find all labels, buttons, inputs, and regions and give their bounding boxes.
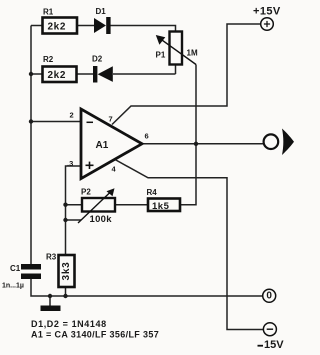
- svg-text:R4: R4: [147, 188, 158, 197]
- svg-text:D1: D1: [96, 7, 107, 16]
- resistor R1: [43, 8, 78, 34]
- svg-text:1M: 1M: [187, 48, 198, 57]
- svg-text:.3: .3: [67, 159, 73, 168]
- terminal +15V: [253, 5, 281, 30]
- node R3 ground: [63, 294, 67, 298]
- wire pin 2: [31, 121, 81, 123]
- wire pin 7 to +15V: [112, 24, 261, 125]
- terminal -15V: [258, 323, 285, 351]
- terminal 0: [263, 289, 276, 302]
- wire P2 left: [66, 204, 83, 206]
- svg-text:P1: P1: [156, 51, 166, 60]
- wire C1 bottom / 0V line: [31, 279, 263, 296]
- svg-text:2k2: 2k2: [48, 70, 67, 81]
- potentiometer P2: [78, 188, 115, 226]
- resistor R2: [43, 55, 77, 82]
- svg-text:100k: 100k: [90, 214, 113, 225]
- diode D1: [94, 7, 111, 34]
- svg-text:A1: A1: [96, 140, 109, 151]
- resistor R4: [147, 188, 181, 212]
- svg-text:1n...1µ: 1n...1µ: [2, 283, 24, 290]
- potentiometer P1: [156, 32, 198, 65]
- terminal output: [264, 129, 294, 156]
- wire output: [142, 143, 264, 145]
- svg-text:6: 6: [145, 132, 149, 141]
- svg-text:1k5: 1k5: [152, 201, 170, 212]
- node P2 left: [63, 203, 67, 207]
- node ground stem: [48, 294, 52, 298]
- wire pin 3 rail: [66, 166, 82, 255]
- svg-text:A1 = CA 3140/LF 356/LF 357: A1 = CA 3140/LF 356/LF 357: [31, 329, 159, 339]
- op-amp A1: [67, 109, 149, 179]
- svg-text:+15V: +15V: [253, 5, 281, 17]
- wire P2 to R4: [115, 204, 148, 206]
- ground: [41, 306, 61, 312]
- svg-text:15V: 15V: [264, 339, 284, 351]
- svg-text:C1: C1: [10, 264, 21, 273]
- svg-text:D1,D2 = 1N4148: D1,D2 = 1N4148: [31, 319, 107, 329]
- svg-text:D2: D2: [92, 55, 103, 64]
- node output junction: [194, 142, 198, 146]
- wire R4 right up to output node and P1 wiper: [180, 65, 196, 205]
- svg-text:0: 0: [266, 291, 272, 302]
- svg-text:3k3: 3k3: [61, 261, 72, 280]
- node pin2 tap: [29, 119, 33, 123]
- svg-text:P2: P2: [81, 188, 91, 197]
- svg-text:R3: R3: [46, 253, 57, 262]
- svg-text:2: 2: [70, 111, 74, 120]
- wire left input rail: [30, 26, 32, 265]
- svg-text:7: 7: [109, 115, 113, 124]
- wire R3 bottom stub: [65, 287, 67, 296]
- node P2 wiper: [63, 218, 67, 222]
- svg-text:2k2: 2k2: [48, 22, 67, 33]
- wire R2 row: [31, 65, 176, 75]
- wire ground stem: [49, 296, 51, 306]
- node R2 tap: [29, 72, 33, 76]
- diode D2: [92, 55, 113, 83]
- wire P2 wiper tap: [66, 219, 82, 221]
- svg-text:R1: R1: [43, 8, 54, 17]
- capacitor C1: [2, 264, 41, 290]
- resistor R3: [46, 253, 75, 288]
- wire pin 4 to -15V: [115, 160, 264, 330]
- wire R1 row: [31, 26, 176, 32]
- svg-text:R2: R2: [43, 55, 54, 64]
